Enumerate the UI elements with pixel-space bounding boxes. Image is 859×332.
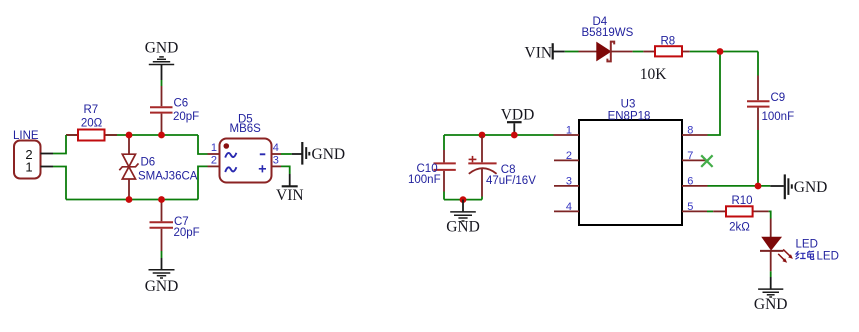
wire pin1 to bottom rail: [53, 167, 66, 200]
wire R10 corner down: [769, 211, 771, 218]
wire junction down to pin8: [708, 52, 721, 136]
svg-text:GND: GND: [145, 40, 179, 57]
svg-text:GND: GND: [754, 296, 788, 313]
no-connect X on pin 7: [701, 155, 712, 167]
TVS diode D6 SMAJ36CA: [119, 135, 197, 200]
svg-text:8: 8: [687, 125, 693, 137]
wire LED to ground: [770, 251, 772, 271]
svg-text:20Ω: 20Ω: [81, 118, 103, 130]
VDD rail: [444, 134, 554, 136]
svg-text:4: 4: [273, 142, 279, 154]
ground GND bottom-right: [754, 277, 788, 313]
svg-text:LED: LED: [817, 251, 839, 263]
wire GND stub to C6: [161, 80, 163, 86]
power port VIN top-right: [525, 43, 565, 62]
svg-text:C6: C6: [174, 98, 189, 110]
svg-text:D6: D6: [141, 157, 156, 169]
svg-text:3: 3: [273, 155, 279, 167]
pin 4: [554, 210, 579, 212]
wire pin5 to R10: [707, 210, 713, 212]
svg-text:VIN: VIN: [525, 45, 553, 62]
svg-text:2: 2: [566, 150, 572, 162]
pin 5: [682, 210, 707, 212]
wire VIN to D4: [565, 51, 579, 53]
wire D4 to R8: [633, 51, 644, 53]
junction C6 bottom: [158, 132, 165, 139]
power port VIN below D5: [276, 174, 304, 204]
capacitor C6: [150, 86, 199, 135]
svg-text:10K: 10K: [640, 66, 668, 83]
svg-text:VIN: VIN: [276, 187, 304, 204]
wire to D5 pin2: [198, 166, 208, 199]
pin 2: [554, 159, 579, 161]
IC U3 EN8P18: [554, 98, 708, 225]
svg-text:2: 2: [211, 155, 217, 167]
pin 7: [682, 159, 707, 161]
svg-text:U3: U3: [621, 98, 636, 110]
svg-text:C10: C10: [417, 163, 438, 175]
wire pin2 to top rail: [53, 135, 66, 154]
svg-text:C9: C9: [771, 92, 786, 104]
wire pin6 to GND / C9 node: [708, 185, 771, 187]
capacitor C7: [150, 200, 200, 252]
wire R8 to C9 corner: [690, 51, 758, 53]
capacitor C8 electrolytic: [468, 137, 536, 200]
svg-text:LED: LED: [796, 239, 818, 251]
resistor R10: [713, 195, 768, 233]
wire C7 to ground: [161, 251, 163, 258]
svg-text:47uF/16V: 47uF/16V: [486, 175, 536, 187]
svg-text:20pF: 20pF: [173, 111, 199, 123]
svg-text:5: 5: [687, 201, 693, 213]
svg-text:100nF: 100nF: [408, 174, 441, 186]
svg-text:GND: GND: [446, 218, 480, 235]
power port VDD: [501, 106, 535, 135]
LED red: [760, 219, 839, 263]
svg-text:GND: GND: [145, 278, 179, 295]
power port GND top: [145, 40, 179, 81]
resistor R7: [66, 104, 117, 140]
wire bottom rail C10-C8: [444, 199, 482, 201]
ground GND below C8: [446, 200, 480, 236]
svg-text:20pF: 20pF: [174, 227, 200, 239]
resistor R8: [640, 36, 690, 83]
svg-text:R10: R10: [731, 195, 752, 207]
svg-text:MB6S: MB6S: [230, 123, 262, 135]
capacitor C10: [408, 135, 456, 200]
svg-text:4: 4: [566, 201, 572, 213]
junction D6 top: [126, 132, 133, 139]
pin 8: [682, 134, 708, 136]
svg-text:1: 1: [211, 142, 217, 154]
svg-text:1: 1: [566, 125, 572, 137]
junction C9 bottom node: [755, 183, 762, 190]
svg-text:GND: GND: [794, 179, 828, 196]
capacitor C9: [747, 76, 794, 131]
pin 3: [554, 185, 579, 187]
junction C7 top: [158, 196, 165, 203]
hanzi 红色 simplified strokes: [795, 251, 814, 260]
junction D6 bottom: [126, 196, 133, 203]
svg-text:2kΩ: 2kΩ: [729, 221, 750, 233]
junction dot R8 node: [717, 48, 724, 55]
connector LINE: [13, 130, 53, 179]
wire pin4 to GND: [281, 153, 292, 155]
wire pin3 to VIN: [281, 166, 290, 174]
ground GND bottom-left: [145, 258, 179, 295]
svg-text:B5819WS: B5819WS: [582, 27, 634, 39]
svg-text:R8: R8: [660, 36, 675, 48]
wire top rail: [66, 134, 198, 136]
svg-text:R7: R7: [83, 104, 98, 116]
svg-text:GND: GND: [312, 146, 346, 163]
power port GND right: [770, 174, 827, 199]
wire C9 to pin6 node: [757, 130, 759, 186]
svg-text:VDD: VDD: [501, 106, 535, 123]
svg-text:100nF: 100nF: [762, 111, 795, 123]
schottky diode D4 B5819WS: [579, 16, 634, 61]
svg-text:6: 6: [687, 175, 693, 187]
junction ground node: [460, 196, 467, 203]
wire to D5 pin1: [198, 135, 208, 154]
junction VDD node: [511, 132, 518, 139]
junction C8 top: [479, 132, 486, 139]
svg-text:1: 1: [25, 159, 32, 174]
wire bottom rail: [66, 199, 198, 201]
svg-text:3: 3: [566, 175, 572, 187]
svg-text:SMAJ36CA: SMAJ36CA: [138, 170, 198, 182]
pin 1: [554, 134, 580, 136]
power port GND right of D5: [292, 142, 345, 165]
bridge rectifier D5 MB6S: [208, 113, 282, 182]
svg-text:7: 7: [687, 150, 693, 162]
svg-text:EN8P18: EN8P18: [608, 110, 651, 122]
pin 6: [682, 185, 708, 187]
